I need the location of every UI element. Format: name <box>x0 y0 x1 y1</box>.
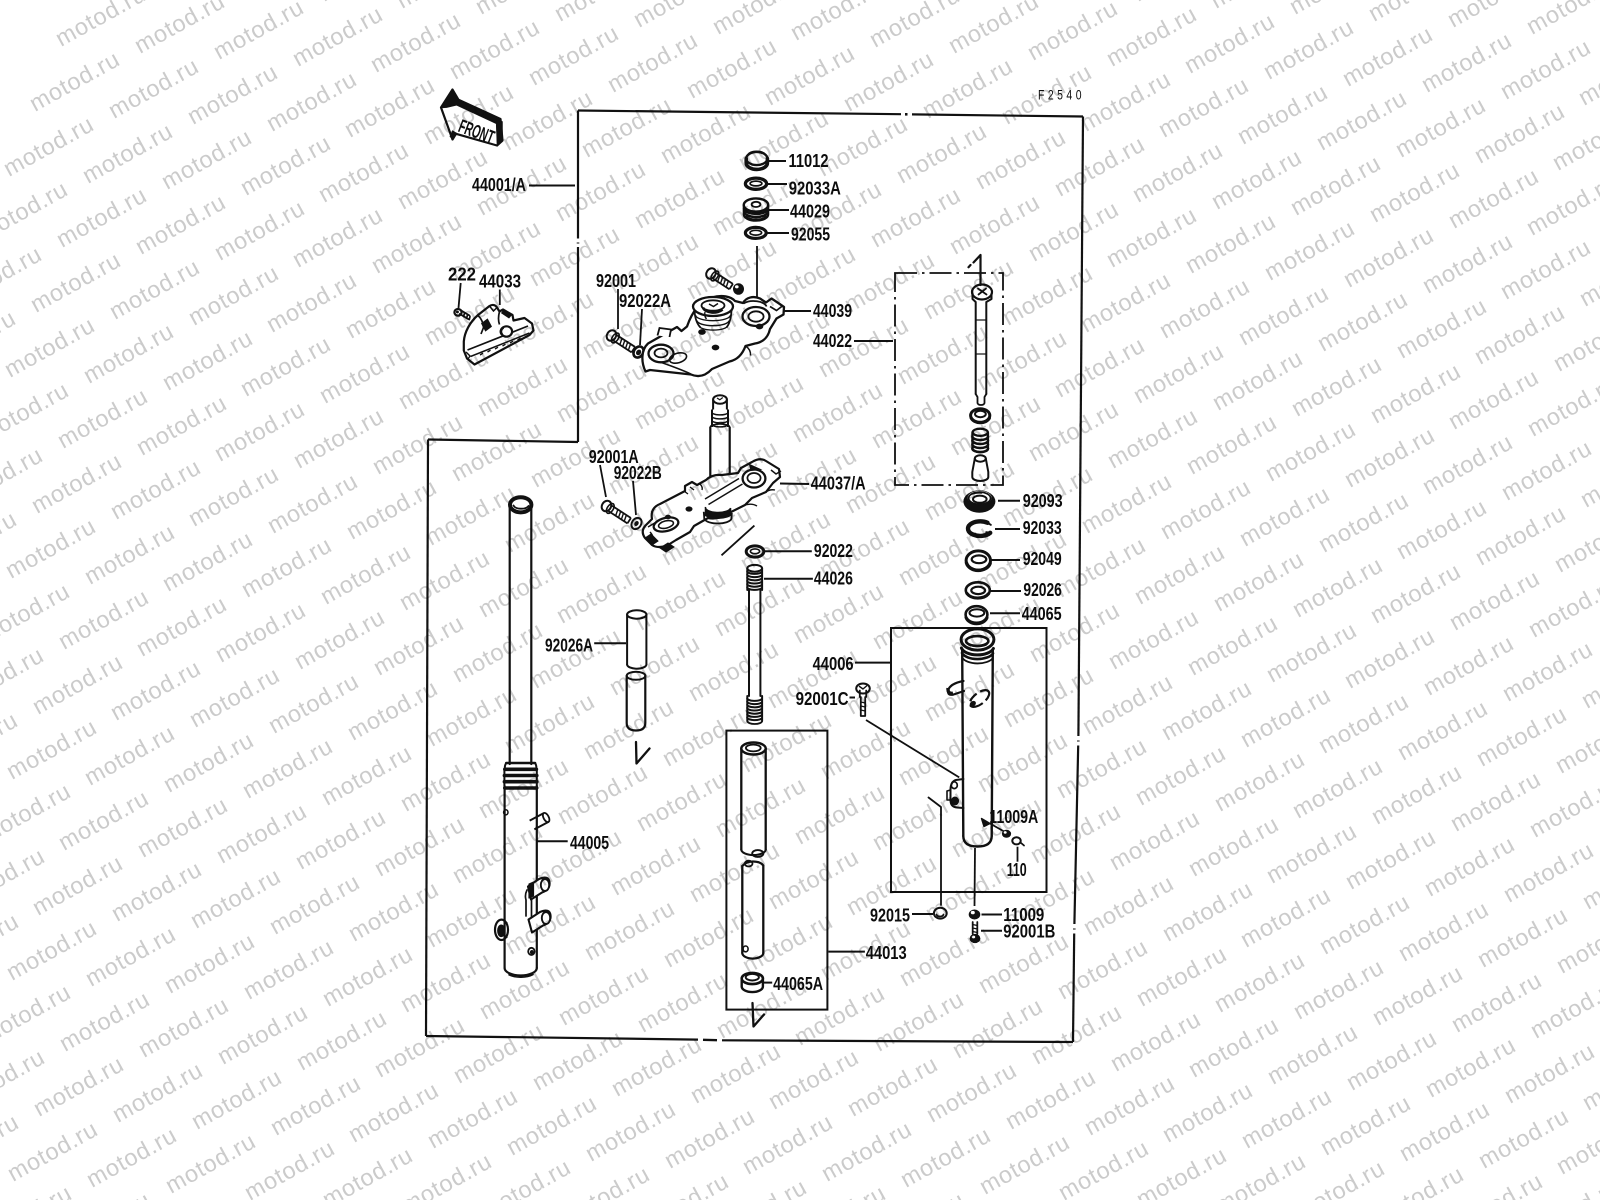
lower triple clamp 44037/A with steering stem <box>643 395 781 552</box>
o-ring 92022 <box>746 546 764 557</box>
base cup 44065A <box>742 973 763 992</box>
label 92022 <box>765 541 853 561</box>
label 11012 <box>769 151 829 171</box>
label 92022B <box>614 463 662 515</box>
label 44065A <box>764 974 823 994</box>
bolt 92001B <box>970 922 981 943</box>
label 44022 <box>813 331 893 351</box>
box for outer tube 44006 <box>891 628 1047 892</box>
label 92001C <box>796 689 855 709</box>
bolt 92001C <box>856 684 870 717</box>
insertion arrow above damper rod <box>969 255 981 285</box>
label 92022A <box>619 291 671 345</box>
fitting 110 <box>1012 837 1024 845</box>
drawing number F2540 <box>1038 88 1085 103</box>
border frame (dash-dot outline) <box>426 111 1083 1043</box>
label 44037/A <box>780 473 866 493</box>
ball washer on clamp bolt <box>733 283 744 295</box>
cylinder tube lower <box>742 861 763 959</box>
label 44033 <box>479 271 521 305</box>
retaining ring 92033 <box>968 521 991 536</box>
oil seal 92093 <box>963 490 995 512</box>
label 92033 <box>995 518 1062 538</box>
label 11009 <box>982 905 1045 925</box>
bolt 92001A <box>600 499 632 525</box>
label 44001/A (fork assembly) <box>472 175 575 195</box>
label 44029 <box>769 202 830 222</box>
stud bolt 44026 <box>747 565 762 724</box>
label 92001A <box>589 447 639 497</box>
damper rod bolt 44022 <box>972 285 992 406</box>
label 92001 <box>596 271 636 329</box>
cylinder tube upper <box>741 743 765 856</box>
label 44065 <box>990 604 1062 624</box>
taper spindle <box>972 455 988 481</box>
cable holder 44033 <box>464 305 534 365</box>
label 44026 <box>764 568 853 588</box>
screw 222 <box>454 309 470 320</box>
o-ring 92033A <box>745 178 766 189</box>
label 92026 <box>990 580 1062 600</box>
label 44005 <box>538 833 610 853</box>
damper washer <box>971 409 990 423</box>
o-ring 92026 <box>966 582 990 598</box>
fork tube 44005 <box>495 497 551 977</box>
box for cylinder unit 44013 <box>726 731 827 1010</box>
spacer 92026A lower <box>627 672 646 731</box>
outer tube 44006 <box>947 629 994 847</box>
label 92033A <box>768 179 841 199</box>
upper triple clamp 44039 <box>642 296 784 376</box>
label 92001B <box>981 922 1055 942</box>
label 110 <box>1007 860 1027 880</box>
bolt 92001 <box>605 328 637 354</box>
label 44006 <box>813 654 890 674</box>
label 92026A <box>545 636 626 656</box>
label 44039 <box>783 301 852 321</box>
label 92093 <box>998 491 1063 511</box>
label 222 <box>448 265 476 309</box>
FRONT arrow <box>441 90 503 149</box>
insertion arrow below 44065A <box>753 1003 765 1027</box>
insertion arrow below spacers <box>636 742 650 764</box>
leader 92015 to drain <box>929 798 942 906</box>
leader tube to 11009 <box>974 848 977 906</box>
label 92055 <box>767 225 830 245</box>
washer 11009 <box>969 910 981 920</box>
label 44013 <box>828 943 906 963</box>
grease nipple 11009A dot <box>1002 830 1011 838</box>
rebound spring <box>972 429 988 453</box>
small ring under upper cylinder <box>752 850 763 857</box>
spacer 92026A upper <box>627 610 646 668</box>
pointer line from 92055 to upper clamp <box>756 246 758 298</box>
label 92049 <box>991 549 1062 569</box>
label 11009A <box>989 807 1038 827</box>
seal washer 92049 <box>966 551 990 571</box>
label 92015 <box>870 906 933 926</box>
leader from 92001C to boss <box>866 720 959 777</box>
washer 92022B <box>629 516 643 531</box>
top plug cap 11012 <box>746 151 767 169</box>
steering stem cap nut 44029 <box>744 198 768 220</box>
position pointer line <box>722 526 755 556</box>
washer 92022A <box>631 345 645 360</box>
clamp bolt (upper) <box>704 266 734 291</box>
washer 44065 <box>966 606 988 624</box>
o-ring 92055 <box>745 227 766 238</box>
pointer 11009A <box>982 819 1006 833</box>
dash-dot box for damper assy 44022 <box>895 273 1003 485</box>
leader 110 <box>1017 847 1019 862</box>
washer 92015 <box>934 908 947 919</box>
